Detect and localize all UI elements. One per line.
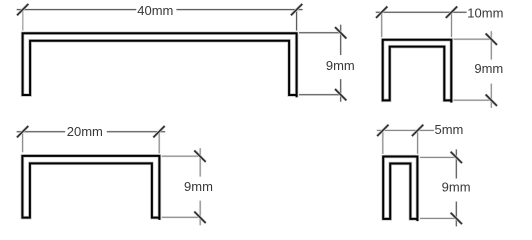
svg-text:40mm: 40mm (137, 3, 173, 18)
svg-text:9mm: 9mm (326, 58, 355, 73)
svg-text:5mm: 5mm (435, 122, 464, 137)
svg-text:20mm: 20mm (67, 124, 103, 139)
svg-text:9mm: 9mm (474, 61, 503, 76)
svg-text:10mm: 10mm (467, 6, 503, 21)
svg-text:9mm: 9mm (184, 179, 213, 194)
svg-text:9mm: 9mm (442, 180, 471, 195)
